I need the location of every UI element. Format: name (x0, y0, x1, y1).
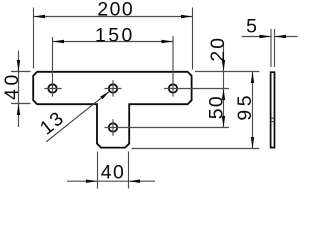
hole H4 centerlines, horizontal extended right as extension line for 50 (105, 119, 230, 136)
leader 13: arrow (100, 92, 109, 100)
hole H2 centerlines (105, 80, 122, 96)
dimension 5: extension lines (271, 29, 275, 67)
hole H1 horizontal centerline (44, 88, 61, 90)
hole H2 middle (109, 84, 117, 92)
hole H3 horizontal centerline extended right as extension line for 20/50 (164, 88, 229, 90)
dimension 40 left: arrows (outside pointing inward) (17, 60, 20, 72)
svg-text:5: 5 (246, 16, 258, 38)
svg-text:20: 20 (207, 36, 229, 62)
dimension 20: extension line top (plate top edge extended right) (195, 71, 259, 73)
dimension 50: bottom arrow (top arrow shared with 20) (222, 116, 225, 128)
dimension 40 bottom: extension lines (98, 152, 129, 189)
dimension 150: dimension line (53, 41, 174, 43)
dimension 20: arrows (outside pointing inward) (222, 60, 225, 72)
hole H1 left (48, 84, 56, 92)
dimension 150: arrows (53, 40, 65, 43)
dimension 200: dimension line (34, 16, 193, 18)
leader 13: leader line (46, 92, 109, 142)
side view plate 5mm thick (271, 72, 275, 147)
svg-text:40: 40 (101, 162, 126, 184)
side view joint lines (270, 118, 275, 121)
dimension 95: arrows (inside) (251, 72, 254, 84)
dimension 40 left: dimension line (18, 51, 20, 128)
dimension 150: extension lines (run down through holes as centerlines) (53, 36, 174, 97)
dimension 40 bottom: dimension line (67, 180, 155, 182)
dimension 20 and 50: shared dimension line (223, 42, 225, 128)
dimension 95: extension line bottom (stem bottom extended right) (132, 148, 260, 150)
svg-text:150: 150 (95, 25, 135, 47)
svg-text:95: 95 (234, 92, 256, 121)
dimension 5: dimension line segments (242, 36, 298, 38)
svg-text:50: 50 (205, 95, 227, 119)
dimension 95: dimension line (252, 72, 254, 149)
T-plate front view outline (33, 72, 191, 148)
svg-text:40: 40 (1, 71, 23, 100)
dimension 40 bottom: arrows (outside pointing inward) (86, 180, 98, 183)
dimension 200: arrows (34, 15, 46, 18)
dimension 200: extension lines (34, 8, 193, 70)
hole H3 right (169, 84, 177, 92)
dimension 5: arrows (outside pointing inward) (260, 35, 272, 38)
svg-text:200: 200 (97, 0, 134, 21)
hole H4 stem (109, 123, 117, 131)
dimension 40 left: extension lines (11, 72, 31, 104)
